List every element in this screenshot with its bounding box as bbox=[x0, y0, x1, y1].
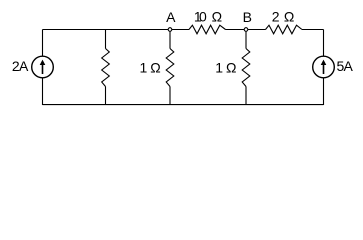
svg-text:5A: 5A bbox=[337, 58, 354, 74]
wire branch 2 lower bbox=[105, 87, 107, 106]
wire bottom bbox=[43, 104, 324, 106]
svg-text:A: A bbox=[166, 9, 176, 25]
wire left branch upper bbox=[42, 30, 44, 57]
node A (open terminal circle) bbox=[168, 28, 172, 32]
node B (open terminal circle) bbox=[244, 28, 248, 32]
svg-text:2Ω: 2Ω bbox=[272, 9, 295, 25]
resistor 10 Ohm (horizontal, between A and B) bbox=[189, 25, 226, 34]
current source 2A bbox=[32, 56, 54, 78]
resistor (vertical, unlabeled, x=105) bbox=[102, 49, 110, 87]
resistor 1 Ohm (vertical, below B) bbox=[242, 49, 250, 87]
arrow of 5A source bbox=[323, 63, 325, 74]
wire between 10 Ohm and node B bbox=[226, 29, 266, 31]
wire top-left segment bbox=[43, 29, 190, 31]
wire right branch upper bbox=[323, 30, 325, 57]
current source 5A bbox=[313, 56, 335, 78]
wire branch 2 upper bbox=[105, 30, 107, 49]
wire right branch lower bbox=[323, 78, 325, 106]
wire top-right segment bbox=[302, 29, 324, 31]
svg-text:1Ω: 1Ω bbox=[215, 60, 236, 76]
wire branch 4 upper (below node B) bbox=[245, 30, 247, 49]
wire branch 3 lower bbox=[169, 87, 171, 106]
resistor 2 Ohm (horizontal, right of B) bbox=[266, 25, 303, 34]
arrow of 2A source bbox=[42, 63, 44, 74]
wire branch 4 lower bbox=[245, 87, 247, 106]
resistor 1 Ohm (vertical, below A) bbox=[166, 49, 174, 87]
svg-text:2A: 2A bbox=[12, 58, 29, 74]
svg-text:B: B bbox=[243, 9, 252, 25]
wire left branch lower bbox=[42, 78, 44, 106]
wire branch 3 upper (below node A) bbox=[169, 30, 171, 49]
svg-text:1Ω: 1Ω bbox=[140, 60, 161, 76]
